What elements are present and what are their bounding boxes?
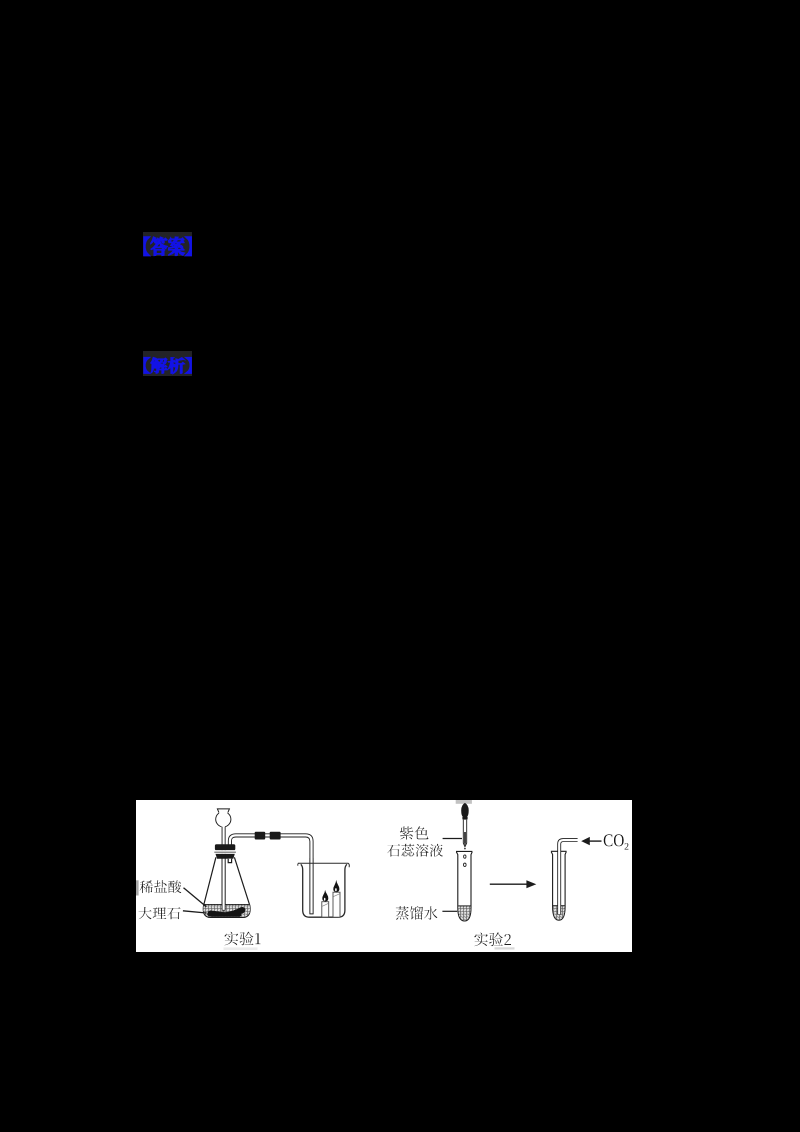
distilled water in tube 1 xyxy=(458,906,470,921)
label: litmus solution xyxy=(387,844,443,857)
thistle funnel stem xyxy=(222,827,226,911)
thistle funnel bulb xyxy=(216,812,231,827)
test tube 2 xyxy=(551,850,567,852)
dropper rubber bulb xyxy=(461,803,469,817)
dropper collar xyxy=(462,817,467,820)
tall candle body xyxy=(333,892,340,917)
liquid in tube 2 xyxy=(553,906,565,920)
litmus solution inside dropper xyxy=(464,832,466,846)
drop in tube a xyxy=(464,855,466,858)
beaker xyxy=(301,864,347,917)
faint smudge under caption 2 xyxy=(495,947,515,949)
tall candle wick xyxy=(335,890,337,893)
rubber tubing connector right xyxy=(270,832,281,840)
caption: experiment 1 xyxy=(224,932,260,946)
rubber stopper taper xyxy=(216,854,235,859)
answer link badge 1 xyxy=(143,232,192,256)
leader line to tube 1 xyxy=(442,910,457,912)
blue label 解析 xyxy=(144,358,191,374)
short candle body xyxy=(322,902,329,917)
arrow xyxy=(490,883,527,885)
white figure panel xyxy=(136,800,632,952)
CO2 text xyxy=(604,834,624,846)
beaker rim over tube xyxy=(298,862,349,864)
short candle flame xyxy=(322,890,328,902)
label: distilled water xyxy=(396,906,438,920)
leader line to marble xyxy=(183,911,207,913)
test tube 1 xyxy=(456,850,472,852)
gas delivery tube xyxy=(559,840,577,915)
marble lumps xyxy=(207,907,245,917)
answer link badge 2 xyxy=(143,351,192,376)
tall candle flame xyxy=(333,880,339,892)
leader line to dropper xyxy=(443,838,462,840)
faint smudge under caption 1 xyxy=(224,947,258,950)
liquid: dilute hydrochloric acid xyxy=(203,904,250,916)
falling drop xyxy=(464,848,466,850)
stopper groove xyxy=(214,850,236,854)
dropper cap clipped at top xyxy=(456,800,472,804)
CO2 arrow head xyxy=(581,837,590,845)
delivery tube stub inside flask xyxy=(228,859,231,863)
dropper glass tube xyxy=(463,820,466,847)
rubber stopper top xyxy=(215,844,235,850)
delivery tube xyxy=(230,835,312,914)
delivery tube in beaker xyxy=(309,858,313,914)
thistle funnel mouth xyxy=(217,809,229,813)
leader line to liquid xyxy=(184,888,207,907)
label: dilute hydrochloric acid xyxy=(140,880,182,893)
short candle wick xyxy=(324,899,326,902)
label: purple xyxy=(400,826,429,839)
blue label 答案 xyxy=(144,237,191,256)
rubber tubing connector left xyxy=(255,832,266,840)
funnel stem lower part xyxy=(222,858,226,911)
caption: experiment 2 xyxy=(474,933,511,947)
erlenmeyer flask body xyxy=(203,857,250,917)
drop in tube b xyxy=(464,863,467,867)
label: marble xyxy=(138,907,180,919)
clipped mark at panel edge xyxy=(136,880,139,895)
